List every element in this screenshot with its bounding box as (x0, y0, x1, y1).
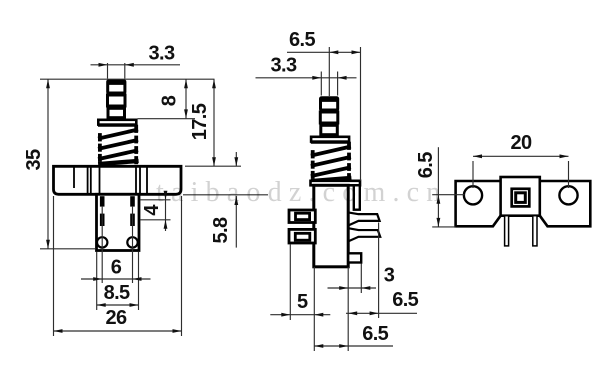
side view: bottom stub (348, 253, 361, 262)
side view: terminal 1 (289, 210, 315, 223)
side view: stub extension line (360, 264, 362, 294)
front view: dim 17.5 line (213, 79, 215, 166)
front view: hole right (127, 237, 137, 247)
svg-text:6: 6 (111, 257, 122, 279)
side view: body edge extension lines (313, 267, 315, 351)
top view: right wing (540, 181, 591, 226)
svg-text:6.5: 6.5 (362, 323, 388, 345)
side view: right pin 2 (348, 228, 380, 241)
front view: hole left (97, 237, 107, 247)
front view: spring seat washer (98, 120, 136, 126)
front view: dim 3.3 line (91, 64, 181, 66)
front view: dim 6 line (81, 278, 151, 280)
top view: left round hole (464, 186, 482, 204)
front view: dim 8.5 line (97, 304, 139, 306)
front view: dim 4 extension lines (140, 199, 171, 201)
svg-text:35: 35 (23, 149, 45, 171)
arrows dim 8 (184, 79, 188, 88)
arrows dim 17.5 (212, 79, 216, 88)
top view: plate bottom extension line (432, 226, 455, 228)
arrows dim 6.5 pin (348, 311, 357, 315)
side view: dim 3.3 line (256, 77, 357, 79)
front view: dim 26 line (54, 330, 182, 332)
svg-text:3: 3 (384, 265, 395, 287)
side view: plunger centre extension line (328, 47, 330, 96)
top view: pin 2 (533, 216, 537, 246)
side view: terminal extension line (289, 244, 291, 320)
arrows dim 5 (281, 313, 290, 317)
svg-text:3.3: 3.3 (270, 55, 296, 77)
side view: pin tip extension line (378, 223, 380, 319)
arrows dim 4 (164, 191, 168, 200)
svg-text:6.5: 6.5 (289, 29, 315, 51)
arrows dim 5.8 (234, 157, 238, 166)
front view: dim 3.3 extension lines (107, 63, 109, 79)
svg-text:5: 5 (297, 291, 308, 313)
top view: dim 20 extension lines (472, 161, 474, 188)
side view: switch body (314, 185, 348, 266)
top view: right round hole (559, 186, 577, 204)
arrows dim 6.5 body (314, 344, 323, 348)
top view: pin 1 (505, 216, 509, 246)
side view: dim 3.3 extension lines (320, 72, 322, 96)
side view: dim 6.5 bottom line (314, 345, 393, 347)
side view: mounting frame plate (311, 181, 361, 186)
svg-text:6.5: 6.5 (415, 152, 437, 178)
side view: right pin 1 (348, 212, 379, 225)
front view: slot dashes (100, 196, 135, 226)
side view: dim 6.5 pin line (346, 312, 417, 314)
front view: dim 8.5 extension lines (96, 252, 98, 311)
arrows dim 20 (473, 154, 482, 158)
front view: washer extension line (138, 118, 196, 120)
arrows dim 3.3 front (99, 63, 108, 67)
side view: plunger, washer and spring (translated copy) (311, 97, 349, 181)
svg-text:5.8: 5.8 (210, 217, 232, 243)
svg-text:8: 8 (159, 95, 181, 106)
front view: coil spring (100, 127, 136, 164)
svg-text:8.5: 8.5 (104, 282, 130, 304)
front view: body bottom extension line (40, 248, 95, 250)
arrows dim 6.5 side top (329, 50, 338, 54)
arrows dim 8.5 (97, 303, 106, 307)
side view: dim 3 line (328, 287, 377, 289)
side view: dim 5 line (270, 314, 330, 316)
arrows dim 6.5 top view (437, 195, 441, 204)
front view: hole centre lines (101, 206, 103, 283)
svg-text:3.3: 3.3 (148, 42, 174, 64)
front view: dim 8 line (185, 79, 187, 118)
top view: left wing (456, 181, 501, 226)
front view: switch body (97, 194, 140, 250)
svg-text:20: 20 (510, 132, 532, 154)
front view: dim 5.8 line (235, 152, 237, 166)
side view: terminal 2 (289, 229, 315, 243)
side view: frame right leg (354, 185, 360, 209)
front view: dim 4 line (165, 193, 167, 232)
front view: plunger (107, 80, 126, 120)
front view: mounting flange (54, 166, 182, 194)
top view: dim 6.5 line (437, 147, 439, 227)
arrows dim 3 side (339, 286, 348, 290)
arrows dim 26 (54, 329, 63, 333)
svg-text:6.5: 6.5 (392, 289, 418, 311)
top view: hole centre extension line (432, 194, 464, 196)
arrows dim 3.3 side (312, 76, 321, 80)
front view: plunger top extension line (40, 78, 215, 80)
front view: dim 35 line (47, 79, 49, 249)
front view: dim 26 extension lines (53, 196, 55, 336)
front view: flange bottom extension line (183, 194, 268, 196)
top view: square hole (512, 189, 530, 207)
side view: right extension line (360, 47, 362, 181)
top view: center section (501, 177, 540, 216)
front view: flange detail lines (74, 166, 147, 194)
arrows dim 6 (93, 277, 102, 281)
watermark (156, 177, 447, 209)
side view: dim 6.5 top line (287, 51, 361, 53)
svg-text:26: 26 (105, 307, 127, 329)
top view: dim 20 line (473, 155, 569, 157)
arrows dim 35 (46, 79, 50, 88)
front view: flange top extension line (185, 165, 241, 167)
svg-text:17.5: 17.5 (189, 103, 211, 140)
